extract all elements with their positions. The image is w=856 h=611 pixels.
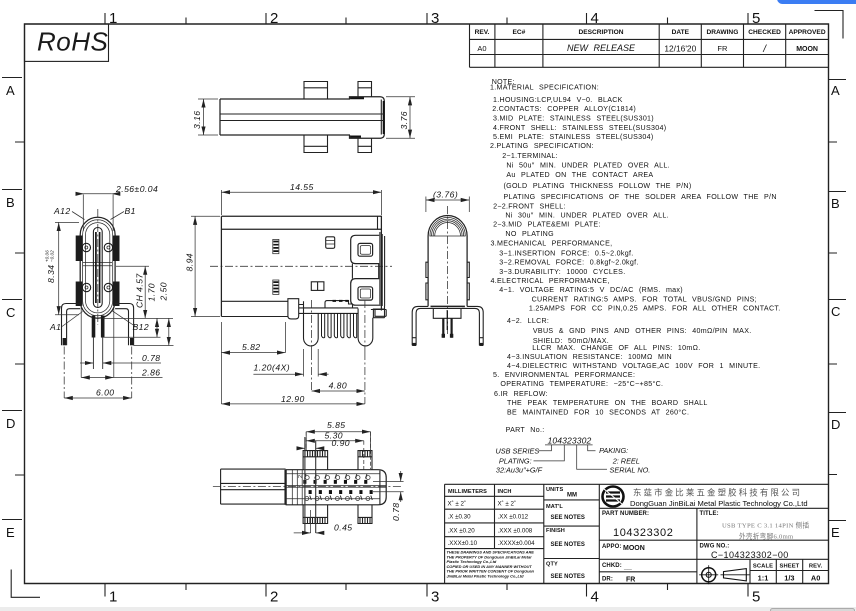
svg-text:12.90: 12.90 bbox=[281, 394, 305, 404]
front view left solder tab upper bbox=[76, 236, 83, 262]
side view latch middle block bbox=[352, 264, 378, 279]
svg-text:BE MAINTAINED FOR 10 SECONDS A: BE MAINTAINED FOR 10 SECONDS AT 260°C. bbox=[507, 408, 689, 416]
svg-text:SEE NOTES: SEE NOTES bbox=[551, 574, 585, 580]
svg-text:4: 4 bbox=[591, 589, 599, 606]
side view leg pins extension bbox=[304, 349, 319, 377]
browser blue pill overlay bbox=[777, 0, 856, 4]
bottom view pin row B labels bbox=[305, 474, 367, 479]
svg-text:SEE NOTES: SEE NOTES bbox=[551, 542, 585, 548]
dimension 2.50 bbox=[168, 318, 170, 345]
svg-text:SEE NOTES: SEE NOTES bbox=[551, 515, 585, 521]
dimension 1.70 bbox=[156, 318, 158, 337]
svg-text:Au PLATED ON THE CONTACT AREA: Au PLATED ON THE CONTACT AREA bbox=[506, 171, 653, 179]
front view left shell arm and leg bbox=[62, 304, 81, 346]
svg-text:USB TYPE C 3.1 14PIN 侧插: USB TYPE C 3.1 14PIN 侧插 bbox=[722, 521, 809, 530]
svg-text:2: 2 bbox=[298, 475, 304, 478]
svg-text:FINISH: FINISH bbox=[546, 528, 565, 534]
svg-text:1.25AMPS FOR CC PIN,0.25 AMPS.: 1.25AMPS FOR CC PIN,0.25 AMPS. FOR ALL O… bbox=[529, 305, 781, 313]
svg-text:PLATING:: PLATING: bbox=[499, 456, 532, 465]
svg-text:2: 2 bbox=[270, 10, 278, 27]
bottom-left trim mark bbox=[11, 570, 40, 598]
top-right trim mark bbox=[815, 11, 844, 39]
bottom view tab top-left bbox=[303, 451, 328, 470]
revision table grid bbox=[470, 24, 829, 67]
svg-text:5.82: 5.82 bbox=[242, 342, 261, 352]
dimension 5.30 bbox=[306, 440, 364, 442]
svg-text:3: 3 bbox=[431, 10, 439, 27]
svg-text:3.MECHANICAL PERFORMANCE,: 3.MECHANICAL PERFORMANCE, bbox=[491, 240, 613, 248]
side view right latch upper bbox=[351, 235, 380, 263]
svg-text:MILLIMETERS: MILLIMETERS bbox=[448, 489, 487, 495]
svg-text:−0.02: −0.02 bbox=[50, 250, 55, 262]
svg-text:3.MID PLATE: STAINLESS STEEL(S: 3.MID PLATE: STAINLESS STEEL(SUS301) bbox=[493, 115, 654, 123]
front view mid-plate seam bbox=[83, 263, 112, 266]
top view body outline bbox=[220, 99, 350, 135]
front view left solder tab lower bbox=[76, 282, 83, 307]
svg-text:MOON: MOON bbox=[796, 46, 818, 53]
svg-text:4.ELECTRICAL PERFORMANCE,: 4.ELECTRICAL PERFORMANCE, bbox=[491, 277, 610, 285]
svg-text:3.16: 3.16 bbox=[192, 110, 202, 129]
svg-text:USB SERIES: USB SERIES bbox=[496, 446, 540, 455]
part number callout labels bbox=[496, 446, 651, 475]
dimension 3.76 bbox=[386, 97, 415, 138]
RoHS logo box bbox=[25, 24, 109, 61]
dimension 5.82 bbox=[284, 322, 286, 353]
svg-text:NO PLATING: NO PLATING bbox=[505, 230, 554, 238]
side view bottom flange bbox=[221, 301, 288, 316]
svg-text:3−3.DURABILITY: 10000 CYCLES.: 3−3.DURABILITY: 10000 CYCLES. bbox=[499, 268, 625, 276]
svg-text:C−104323302−00: C−104323302−00 bbox=[711, 550, 789, 560]
dimension (3.76) bbox=[426, 197, 469, 213]
svg-text:东莚市金比莱五金塑胶科技有限公司: 东莚市金比莱五金塑胶科技有限公司 bbox=[633, 488, 802, 498]
top ruler ticks bbox=[105, 13, 748, 24]
svg-text:JinBiLai Metal Plastic Technol: JinBiLai Metal Plastic Technology Co.,Lt… bbox=[447, 574, 525, 579]
svg-text:2−3.MID PLATE&EMI PLATE:: 2−3.MID PLATE&EMI PLATE: bbox=[493, 221, 601, 229]
svg-text:4−4.DIELECTRIC WITHSTAND VOLTA: 4−4.DIELECTRIC WITHSTAND VOLTAGE,AC 100V… bbox=[507, 362, 760, 370]
svg-text:.XXXX±0.004: .XXXX±0.004 bbox=[498, 540, 536, 547]
right view dome arcs bbox=[428, 215, 467, 236]
dimension 0.78 front bbox=[80, 362, 93, 364]
front view shell stadium 3 bbox=[86, 223, 110, 313]
side view flange end cap bbox=[288, 299, 299, 319]
svg-text:CHKD:: CHKD: bbox=[602, 563, 622, 569]
right view base block bbox=[433, 308, 461, 318]
svg-text:2−2.FRONT SHELL:: 2−2.FRONT SHELL: bbox=[493, 202, 566, 210]
bottom view pin row A labels bbox=[310, 496, 373, 501]
svg-text:8.94: 8.94 bbox=[185, 253, 195, 272]
dimension CH 4.57 bbox=[101, 266, 174, 345]
side view right latch lower bbox=[351, 279, 380, 306]
svg-text:REV.: REV. bbox=[475, 29, 490, 36]
svg-text:2.86: 2.86 bbox=[141, 368, 161, 378]
right view middle pins bbox=[442, 318, 444, 337]
svg-text:DATE: DATE bbox=[672, 29, 690, 36]
bottom view pin row A (lower) bbox=[309, 490, 373, 494]
svg-text:E: E bbox=[6, 525, 15, 540]
svg-text:UNITS: UNITS bbox=[546, 487, 563, 493]
bottom view inner right line bbox=[379, 471, 381, 505]
dimension 3.16 bbox=[198, 99, 218, 135]
dimension 6.00 bbox=[64, 397, 132, 399]
front view right shell arm and leg bbox=[115, 304, 134, 346]
svg-text:Ni 50u″ MIN. UNDER PLATED OVER: Ni 50u″ MIN. UNDER PLATED OVER ALL. bbox=[506, 161, 670, 169]
side view left leg bbox=[304, 301, 319, 346]
top view mounting tab lower-right bbox=[358, 138, 372, 152]
svg-text:A: A bbox=[831, 83, 840, 98]
dimension 14.55 bbox=[221, 190, 381, 215]
dimension 2.86 bbox=[81, 305, 114, 378]
dimension 8.94 bbox=[191, 216, 220, 316]
svg-text:X˚ ± 2˚: X˚ ± 2˚ bbox=[498, 500, 517, 507]
bottom view tab top-right bbox=[358, 451, 372, 470]
side view pin stack detail lower bbox=[273, 280, 279, 294]
right view right arm and leg bbox=[462, 306, 483, 345]
right view body sides bbox=[428, 236, 467, 306]
svg-text:4−3.INSULATION RESISTANCE: 100: 4−3.INSULATION RESISTANCE: 100MΩ MIN bbox=[507, 353, 672, 361]
svg-text:0.45: 0.45 bbox=[334, 523, 353, 533]
svg-text:12/16'20: 12/16'20 bbox=[664, 44, 696, 54]
front view right foot bbox=[130, 338, 133, 345]
svg-text:1: 1 bbox=[109, 589, 117, 606]
svg-text:A12: A12 bbox=[53, 206, 71, 216]
right view centerline bbox=[447, 206, 449, 334]
svg-text:2−1.TERMINAL:: 2−1.TERMINAL: bbox=[502, 152, 558, 160]
svg-text:(3.76): (3.76) bbox=[433, 190, 458, 200]
svg-text:MOON: MOON bbox=[623, 545, 645, 552]
dimension 0.45 bbox=[294, 532, 311, 534]
svg-text:INCH: INCH bbox=[498, 489, 512, 495]
right view left foot bbox=[412, 337, 416, 339]
svg-text:5. ENVIRONMENTAL PERFORMANCE:: 5. ENVIRONMENTAL PERFORMANCE: bbox=[493, 371, 635, 379]
svg-text:.XX ±0.012: .XX ±0.012 bbox=[498, 514, 529, 521]
svg-text:4.FRONT SHELL: STAINLESS STEEL: 4.FRONT SHELL: STAINLESS STEEL(SUS304) bbox=[493, 124, 666, 132]
bottom view extension lines 5.85 5.30 bbox=[306, 432, 370, 470]
side view lower body edge bbox=[299, 305, 385, 318]
bottom scrollbar thumb bbox=[770, 608, 855, 611]
bottom view body outline bbox=[286, 470, 387, 505]
bottom view inner horizontals bbox=[286, 474, 386, 499]
bottom view long extension line left bbox=[304, 437, 306, 533]
svg-text:B12: B12 bbox=[133, 322, 150, 332]
svg-text:OPERATING TEMPERATURE: −25°C~+: OPERATING TEMPERATURE: −25°C~+85°C. bbox=[500, 380, 663, 388]
svg-text:DRAWING: DRAWING bbox=[706, 29, 738, 36]
svg-text:5.85: 5.85 bbox=[327, 420, 346, 430]
svg-text:D: D bbox=[831, 417, 840, 432]
svg-text:PAKING:: PAKING: bbox=[599, 446, 628, 455]
svg-text:THE PEAK TEMPERATURE ON THE BO: THE PEAK TEMPERATURE ON THE BOARD SHALL bbox=[507, 399, 708, 407]
left ruler ticks bbox=[2, 78, 25, 520]
dimension 8.34 bbox=[55, 222, 79, 314]
side view body right edge lines bbox=[380, 232, 382, 306]
revision table header text bbox=[475, 29, 826, 36]
svg-text:APPO:: APPO: bbox=[602, 544, 622, 550]
side view latch spring detail bbox=[326, 237, 335, 249]
title block grid bbox=[445, 484, 829, 583]
svg-text:2: REEL: 2: REEL bbox=[612, 456, 640, 465]
top view mounting tab upper-left bbox=[304, 82, 328, 100]
svg-text:PART NUMBER:: PART NUMBER: bbox=[602, 511, 649, 517]
svg-text:3: 3 bbox=[431, 589, 439, 606]
svg-text:PLATING SPECIFICATIONS OF THE: PLATING SPECIFICATIONS OF THE SOLDER ARE… bbox=[504, 193, 777, 201]
side view body outline bbox=[221, 216, 381, 316]
front view right solder tab upper bbox=[113, 236, 120, 262]
svg-text:104323302: 104323302 bbox=[548, 435, 592, 445]
svg-text:NEW RELEASE: NEW RELEASE bbox=[567, 43, 636, 53]
svg-text:.XX ±0.20: .XX ±0.20 bbox=[448, 527, 476, 534]
front view pin B1 circle bbox=[104, 243, 112, 251]
units column text bbox=[546, 487, 565, 568]
svg-text:1.20(4X): 1.20(4X) bbox=[254, 363, 291, 373]
side view double square detail bbox=[311, 282, 324, 291]
svg-text:.XXX±0.10: .XXX±0.10 bbox=[448, 540, 478, 547]
svg-text:(GOLD PLATING THICKNESS FOLLOW: (GOLD PLATING THICKNESS FOLLOW THE P/N) bbox=[504, 182, 692, 190]
side view right outer shell line bbox=[384, 236, 386, 306]
front view pin lower-right circle bbox=[104, 283, 112, 291]
front view pin lower-left circle bbox=[82, 283, 90, 291]
svg-text:MAT'L: MAT'L bbox=[546, 504, 563, 510]
svg-text:B: B bbox=[6, 195, 15, 210]
side view shell right edge step bbox=[377, 216, 379, 229]
side view centerline bbox=[210, 265, 392, 267]
front view shell stadium 2 bbox=[83, 220, 113, 316]
right view left arm and leg bbox=[412, 306, 433, 345]
notes text block bbox=[490, 78, 780, 434]
dimension 4.80 bbox=[312, 390, 365, 392]
front view right solder tab lower bbox=[113, 282, 120, 307]
bottom view pin row B (upper) bbox=[303, 480, 367, 484]
svg-text:4−1. VOLTAGE RATING:5 V DC/AC: 4−1. VOLTAGE RATING:5 V DC/AC (RMS. max) bbox=[499, 286, 683, 294]
svg-text:FR: FR bbox=[626, 577, 635, 584]
svg-text:C: C bbox=[6, 305, 15, 320]
tolerance table text bbox=[448, 489, 512, 495]
svg-text:SCALE: SCALE bbox=[753, 564, 773, 570]
front view centerline bbox=[97, 209, 99, 325]
svg-text:A0: A0 bbox=[477, 44, 486, 53]
svg-text:A1: A1 bbox=[49, 322, 61, 332]
svg-text:8.34: 8.34 bbox=[46, 264, 56, 283]
svg-text:2.CONTACTS: COPPER ALLOY(C1814: 2.CONTACTS: COPPER ALLOY(C1814) bbox=[492, 105, 636, 113]
side view pin stack detail upper bbox=[273, 239, 279, 253]
front view outer shell stadium bbox=[80, 217, 115, 318]
side view right leg centerline bbox=[364, 300, 366, 352]
svg-text:D: D bbox=[6, 416, 15, 431]
svg-text:5.EMI PLATE: STAINLESS STEEL(S: 5.EMI PLATE: STAINLESS STEEL(SUS304) bbox=[493, 133, 654, 141]
dimension 0.90 bbox=[299, 447, 305, 449]
dimension 2.56±0.04 bbox=[83, 195, 113, 232]
projection symbol bbox=[699, 565, 749, 584]
right ruler ticks bbox=[829, 80, 847, 521]
top view right end double line bbox=[380, 100, 382, 135]
right view left notches bbox=[426, 262, 428, 300]
svg-text:0.78: 0.78 bbox=[391, 502, 401, 521]
svg-text:0.78: 0.78 bbox=[142, 353, 161, 363]
svg-text:1: 1 bbox=[109, 10, 117, 27]
top view mounting tab lower-left bbox=[304, 135, 328, 153]
svg-text:3−2.REMOVAL FORCE: 0.8kgf~2.0k: 3−2.REMOVAL FORCE: 0.8kgf~2.0kgf. bbox=[499, 259, 639, 267]
svg-text:3.76: 3.76 bbox=[399, 111, 409, 130]
svg-text:外壳折弯脚6.0mm: 外壳折弯脚6.0mm bbox=[739, 532, 794, 541]
bottom view tab bottom-left bbox=[303, 505, 328, 524]
front view pin A12 circle bbox=[82, 243, 90, 251]
svg-text:32:Au3u″+G/F: 32:Au3u″+G/F bbox=[496, 465, 543, 474]
scale sheet rev headers bbox=[753, 564, 823, 570]
svg-text:.XXX ±0.008: .XXX ±0.008 bbox=[498, 527, 533, 534]
svg-text:6.IR REFLOW:: 6.IR REFLOW: bbox=[494, 390, 548, 398]
svg-text:/: / bbox=[762, 44, 767, 55]
svg-text:DR:: DR: bbox=[602, 577, 613, 583]
svg-text:RoHS: RoHS bbox=[37, 27, 109, 57]
side view left leg centerline bbox=[311, 300, 313, 352]
svg-text:DWG NO.:: DWG NO.: bbox=[700, 544, 730, 550]
svg-text:X˚ ± 2˚: X˚ ± 2˚ bbox=[448, 500, 467, 507]
front view middle pins bbox=[92, 316, 96, 338]
svg-text:DongGuan JinBiLai Metal Plasti: DongGuan JinBiLai Metal Plastic Technolo… bbox=[630, 499, 808, 508]
part number leader lines bbox=[534, 445, 608, 469]
svg-text:0.90: 0.90 bbox=[332, 438, 351, 448]
svg-text:A: A bbox=[6, 83, 15, 98]
svg-text:1:1: 1:1 bbox=[758, 574, 769, 583]
bottom ruler ticks bbox=[105, 584, 748, 597]
svg-text:PART No.:: PART No.: bbox=[506, 426, 545, 434]
svg-text:FR: FR bbox=[717, 44, 728, 53]
svg-text:2.50: 2.50 bbox=[158, 282, 168, 302]
side view contact comb teeth bbox=[322, 313, 357, 337]
side view comb bracket marks bbox=[333, 300, 349, 302]
side view right bottom step bbox=[371, 310, 386, 317]
svg-text:2.PLATING SPECIFICATION:: 2.PLATING SPECIFICATION: bbox=[490, 142, 594, 150]
dimension 5.85 bbox=[306, 431, 370, 433]
side view comb bracket top bbox=[299, 301, 358, 314]
svg-text:E: E bbox=[831, 525, 840, 540]
svg-text:CH 4.57: CH 4.57 bbox=[135, 273, 145, 308]
right view center cut line bbox=[446, 310, 448, 330]
svg-text:B1: B1 bbox=[125, 206, 136, 216]
svg-text:REV.: REV. bbox=[809, 564, 823, 570]
bottom view tab bottom-right bbox=[358, 505, 372, 524]
dimension 1.20(4X) bbox=[253, 373, 303, 375]
bottom gray bar bbox=[0, 607, 856, 611]
svg-text:C: C bbox=[831, 304, 840, 319]
right view right foot bbox=[479, 337, 483, 339]
svg-text:__: __ bbox=[623, 564, 632, 571]
right view right notches bbox=[467, 262, 469, 300]
svg-text:1.MATERIAL SPECIFICATION:: 1.MATERIAL SPECIFICATION: bbox=[490, 84, 599, 92]
svg-text:CHECKED: CHECKED bbox=[748, 29, 781, 36]
svg-text:LLCR MAX. CHANGE OF ALL PINS:: LLCR MAX. CHANGE OF ALL PINS: 10mΩ. bbox=[532, 344, 700, 352]
top view mounting tab upper-right bbox=[358, 82, 372, 97]
svg-text:5: 5 bbox=[752, 589, 760, 606]
svg-text:SERIAL NO.: SERIAL NO. bbox=[610, 465, 651, 474]
revision row A0 bbox=[477, 43, 818, 55]
svg-text:.X ±0.30: .X ±0.30 bbox=[448, 514, 472, 521]
dimension 12.90 bbox=[220, 322, 222, 404]
svg-text:TITLE:: TITLE: bbox=[700, 511, 719, 517]
svg-text:Ni 30u″ MIN. UNDER PLATED OVER: Ni 30u″ MIN. UNDER PLATED OVER ALL. bbox=[505, 212, 669, 220]
svg-text:MM: MM bbox=[567, 493, 577, 499]
side view right leg bbox=[358, 309, 373, 346]
svg-text:1/3: 1/3 bbox=[784, 574, 794, 583]
front view tongue bbox=[93, 228, 102, 308]
disclaimer text bbox=[447, 550, 535, 579]
top view fold marks bbox=[350, 98, 364, 136]
bottom view tail bbox=[221, 469, 286, 504]
svg-text:A0: A0 bbox=[811, 574, 820, 583]
svg-text:CURRENT RATING:5 AMPS. FOR TOT: CURRENT RATING:5 AMPS. FOR TOTAL VBUS/GN… bbox=[532, 295, 757, 303]
right view base plate bbox=[431, 305, 465, 307]
svg-text:APPROVED: APPROVED bbox=[789, 29, 826, 36]
svg-text:6.00: 6.00 bbox=[96, 388, 115, 398]
svg-text:3−1.INSERTION FORCE: 0.5~2.0kg: 3−1.INSERTION FORCE: 0.5~2.0kgf. bbox=[499, 249, 633, 257]
svg-text:VBUS & GND PINS AND OTHER PINS: VBUS & GND PINS AND OTHER PINS: 40mΩ/PIN… bbox=[533, 327, 752, 335]
svg-text:DESCRIPTION: DESCRIPTION bbox=[578, 29, 623, 36]
svg-text:EC#: EC# bbox=[512, 29, 525, 36]
svg-text:2: 2 bbox=[270, 589, 278, 606]
svg-text:2.56±0.04: 2.56±0.04 bbox=[115, 184, 158, 194]
svg-text:14.55: 14.55 bbox=[290, 182, 314, 192]
svg-text:1.70: 1.70 bbox=[147, 283, 157, 302]
svg-text:B: B bbox=[831, 196, 840, 211]
scale sheet rev values bbox=[758, 574, 821, 583]
svg-text:SHEET: SHEET bbox=[779, 564, 799, 570]
svg-text:1.HOUSING:LCP,UL94 V−0. BLACK: 1.HOUSING:LCP,UL94 V−0. BLACK bbox=[493, 96, 623, 104]
top view EMI shell right end bbox=[350, 97, 385, 138]
svg-text:4−2. LLCR:: 4−2. LLCR: bbox=[507, 317, 549, 325]
bottom view extension line 0.90 right bbox=[315, 441, 317, 533]
svg-text:QTY: QTY bbox=[546, 562, 558, 568]
bottom view centerline bbox=[213, 485, 402, 487]
svg-text:4.80: 4.80 bbox=[329, 380, 348, 390]
svg-text:104323302: 104323302 bbox=[613, 527, 673, 539]
top view inner seam lines bbox=[220, 114, 384, 121]
front view left foot bbox=[63, 338, 66, 345]
dimension 0.78 bottom view bbox=[373, 482, 404, 492]
company logo bbox=[603, 487, 624, 507]
